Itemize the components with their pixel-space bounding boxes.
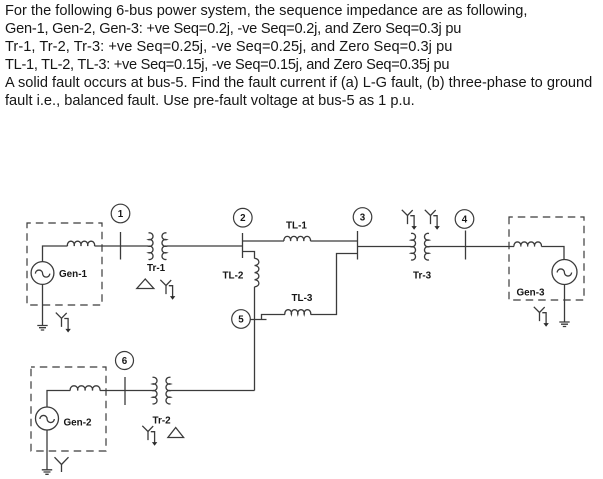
svg-text:2: 2 xyxy=(240,213,246,224)
svg-text:Gen-3: Gen-3 xyxy=(517,288,545,299)
svg-text:Tr-1: Tr-1 xyxy=(147,263,166,274)
svg-text:TL-1: TL-1 xyxy=(286,221,307,232)
svg-text:TL-2: TL-2 xyxy=(223,271,244,282)
svg-text:Gen-2: Gen-2 xyxy=(64,418,92,429)
svg-text:5: 5 xyxy=(238,315,244,326)
svg-text:Gen-1: Gen-1 xyxy=(59,269,87,280)
svg-text:Tr-3: Tr-3 xyxy=(413,271,432,282)
svg-text:3: 3 xyxy=(360,213,366,224)
svg-text:6: 6 xyxy=(122,356,128,367)
svg-text:4: 4 xyxy=(462,215,468,226)
svg-text:Tr-2: Tr-2 xyxy=(153,416,172,427)
svg-text:TL-3: TL-3 xyxy=(292,293,313,304)
svg-text:1: 1 xyxy=(118,209,124,220)
